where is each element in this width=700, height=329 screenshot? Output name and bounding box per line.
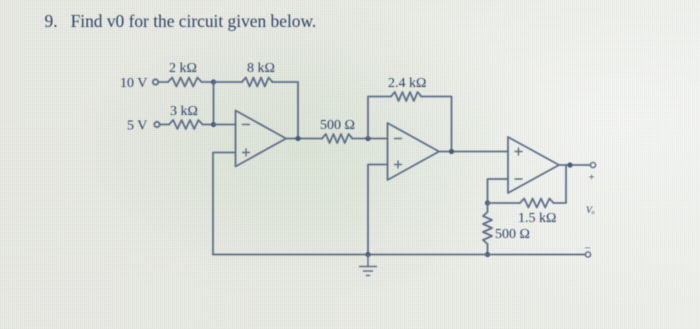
resistor R3 3 kOhm	[169, 104, 203, 129]
label Vo	[586, 206, 595, 216]
svg-text:500 Ω: 500 Ω	[320, 118, 355, 133]
op-amp U2	[388, 123, 440, 180]
feedback wire R5 to U2 output	[421, 97, 452, 152]
svg-text:2 kΩ: 2 kΩ	[169, 61, 197, 76]
wire R1 to node A	[202, 81, 214, 83]
ground rail wire	[213, 254, 586, 256]
svg-text:Vₒ: Vₒ	[586, 206, 595, 216]
feedback wire R2 to U1 output	[272, 82, 298, 139]
svg-text:−: −	[585, 243, 591, 255]
svg-text:5 V: 5 V	[127, 119, 147, 134]
op-amp U3	[508, 137, 559, 193]
svg-text:1.5 kΩ: 1.5 kΩ	[518, 211, 556, 226]
wire U2 output to U3	[439, 151, 508, 153]
wire U1 output	[286, 138, 322, 140]
op-amp U1	[236, 111, 287, 167]
wire U3 output to terminal	[559, 164, 591, 166]
svg-text:500 Ω: 500 Ω	[495, 227, 530, 242]
svg-text:8 kΩ: 8 kΩ	[247, 61, 275, 76]
resistor R6 1.5 kOhm	[518, 199, 556, 227]
wire R4 to node D	[352, 138, 388, 140]
node B (inverting input U1)	[211, 122, 216, 127]
wire U3 inverting input to node F	[488, 179, 509, 203]
node F (feedback junction)	[485, 200, 490, 205]
node C (U1 output)	[295, 136, 300, 141]
title: 9. Find v0 for the circuit given below.	[45, 11, 317, 31]
resistor R4 500 Ohm	[320, 118, 355, 143]
node A (junction 2k/8k/vertical)	[211, 79, 216, 84]
svg-text:+: +	[589, 172, 595, 184]
wire node B to U1 inverting input	[214, 124, 236, 126]
node G (U3 output)	[567, 162, 572, 167]
source terminal 5 V	[127, 119, 169, 134]
output terminal minus	[585, 243, 591, 258]
resistor R2 8 kOhm	[242, 61, 275, 87]
wire R3 to node B	[203, 124, 214, 126]
wire node F to R6	[488, 202, 521, 204]
feedback wire node D up and over	[368, 97, 391, 139]
resistor R7 500 Ohm (vertical)	[483, 203, 530, 255]
svg-text:9. Find v0 for the circuit g: 9. Find v0 for the circuit given below.	[45, 11, 317, 31]
svg-text:3 kΩ: 3 kΩ	[170, 104, 198, 119]
resistor R1 2 kOhm	[168, 61, 202, 87]
feedback wire R6 up to U3 output	[554, 165, 566, 203]
node D (inverting input U2)	[365, 136, 370, 141]
node H (rail / 500 Ohm)	[485, 252, 490, 257]
output terminal plus	[589, 162, 596, 183]
node I (rail / ground)	[365, 252, 370, 257]
svg-text:2.4 kΩ: 2.4 kΩ	[388, 76, 426, 91]
wire node A down to node B	[213, 82, 215, 125]
svg-text:10 V: 10 V	[120, 76, 147, 91]
wire U2 noninverting input to ground rail	[368, 165, 388, 255]
node E (U2 output)	[449, 149, 454, 154]
ground symbol	[360, 255, 377, 276]
resistor R5 2.4 kOhm	[388, 76, 426, 101]
wire node A to R2	[214, 81, 243, 83]
source terminal 10 V	[120, 76, 168, 91]
wire U1 noninverting input to ground rail	[213, 153, 236, 255]
